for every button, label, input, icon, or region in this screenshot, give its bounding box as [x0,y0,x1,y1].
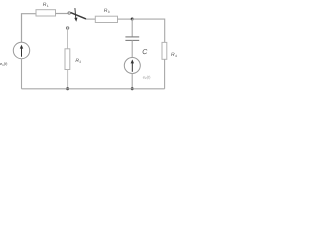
wire node A to top-right corner down to R4 [132,19,165,42]
svg-text:1: 1 [47,4,49,8]
current source e2 [124,58,140,74]
svg-text:e2(t): e2(t) [143,74,151,80]
resistor R1 [36,2,56,16]
wire R3 to node A [118,18,133,20]
capacitor C [125,37,148,56]
resistor R4 [162,42,177,59]
wire R1 to switch contact [56,13,68,15]
node A junction dot [131,18,134,21]
svg-text:e1(t): e1(t) [0,62,8,67]
wire node A down to capacitor [131,19,133,37]
junction dot R2/rail [66,87,69,90]
bottom rail [22,88,165,90]
svg-text:C: C [142,49,148,56]
junction dot e2/rail [131,87,134,90]
svg-text:2: 2 [79,60,81,64]
wire e2 to bottom rail [131,74,133,89]
wire top-left (corner) [22,14,37,43]
switch lower contact [66,27,68,29]
switch blade [71,13,86,19]
svg-text:4: 4 [175,54,177,58]
wire R2 to bottom rail [67,70,69,89]
wire e1 to bottom rail [21,59,23,89]
wire lower contact to R2 [67,29,69,49]
svg-text:3: 3 [108,10,110,14]
wire R4 to bottom rail [164,59,166,89]
wire capacitor to source e2 [131,40,133,57]
switch arrow [74,8,77,22]
resistor R2 [65,49,81,70]
current source e1 [13,42,29,58]
switch upper contact [68,12,70,14]
resistor R3 [95,8,117,23]
wire blade to R3 [86,18,95,20]
